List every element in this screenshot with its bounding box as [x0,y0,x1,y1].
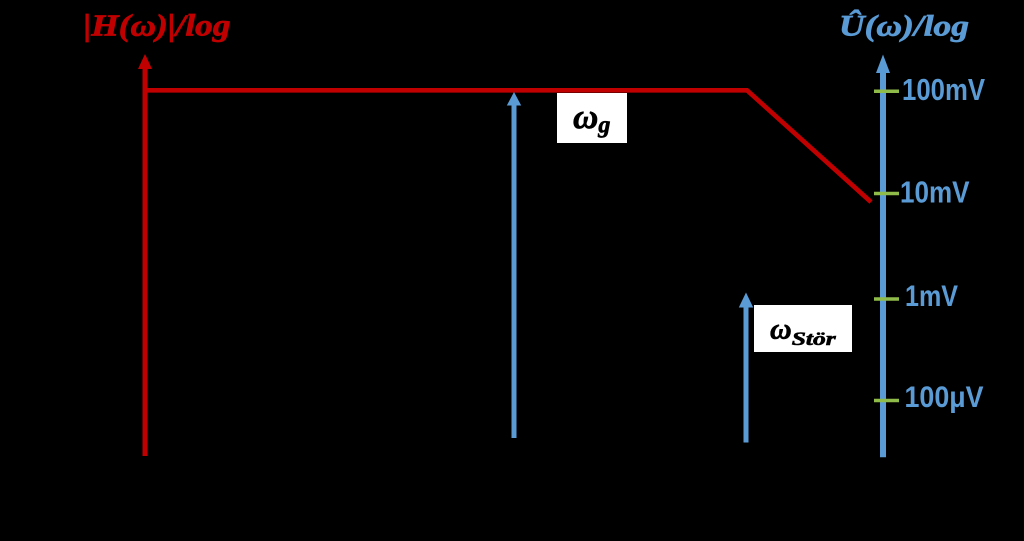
blue arrow omega_g [512,103,517,438]
svg-text:1mV: 1mV [905,280,958,313]
tick 100uV [874,399,899,403]
red response curve [145,90,871,202]
white label box omega_Stoer [754,305,852,352]
red axis arrowhead [138,54,152,69]
tick 1mV [874,297,899,301]
tick 10mV [874,192,899,196]
blue right axis line [880,66,886,457]
svg-text:10mV: 10mV [900,176,970,210]
blue right axis arrowhead [876,55,890,74]
white label box omega_g [557,93,627,143]
svg-text:|H(ω)|/log: |H(ω)|/log [84,8,231,43]
blue arrow omega_Stoer [744,305,749,443]
svg-text:100mV: 100mV [902,73,986,107]
red vertical axis line [143,62,148,456]
tick 100mV [874,90,899,94]
svg-text:Û(ω)/log: Û(ω)/log [839,10,969,43]
svg-text:100μV: 100μV [905,381,984,414]
